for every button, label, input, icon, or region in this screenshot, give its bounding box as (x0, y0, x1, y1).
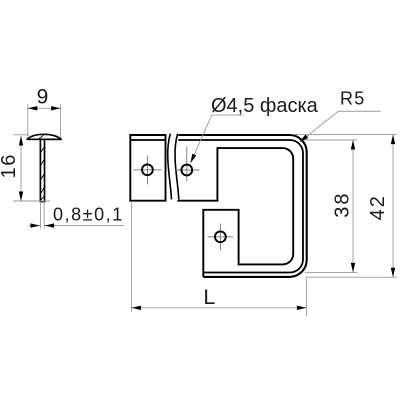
R5 leader (300, 111, 338, 141)
svg-text:R5: R5 (340, 89, 365, 109)
dim 38 arrows (351, 140, 355, 150)
dim 38 line (352, 140, 354, 272)
break line 2 (175, 134, 179, 200)
stem bottom end bar (40, 201, 46, 203)
cap (head) outline (27, 134, 61, 139)
dim L extension lines (131, 203, 133, 313)
outer contour of strip (178, 135, 306, 277)
dim 9 arrows (28, 106, 38, 110)
svg-text:16: 16 (0, 153, 20, 178)
svg-text:42: 42 (367, 194, 389, 220)
break line 1 (168, 134, 172, 200)
dim 42 arrows (391, 135, 395, 145)
stem right edge (44, 139, 46, 201)
hole 2 (181, 165, 192, 176)
dim 42 line (392, 135, 394, 278)
dim L line (132, 307, 307, 309)
left piece: inner top line (130, 139, 165, 141)
dim 38 extension lines (304, 139, 358, 141)
dim L arrows (132, 306, 142, 310)
inner contour (face window) and tab (203, 148, 293, 277)
dim 16 line (20, 136, 22, 201)
leader arrowhead (190, 154, 196, 164)
svg-text:0,8±0,1: 0,8±0,1 (53, 205, 124, 225)
dim 0,8 extension lines (40, 203, 42, 229)
left piece: outer top line (129, 134, 165, 136)
hole 3 center cross (219, 224, 221, 251)
dim 0,8 leader lines (29, 225, 41, 227)
svg-text:38: 38 (332, 191, 354, 217)
R5 arrowhead (300, 134, 309, 142)
svg-text:L: L (203, 285, 215, 309)
left piece: bottom edge (129, 200, 166, 202)
svg-text:9: 9 (37, 86, 49, 109)
hole 1 center cross (146, 156, 148, 185)
inner line of strip (178, 140, 303, 273)
dim 16 arrows (19, 136, 23, 146)
left piece: left edge (129, 134, 131, 201)
face bottom edge (right of break) (177, 200, 218, 202)
face right edge (216, 147, 218, 201)
left piece: right edge (165, 134, 167, 201)
dim 42 extension lines (295, 134, 397, 136)
dim 16 extension lines (13, 134, 30, 136)
hole 3 (215, 231, 226, 242)
cap hatch stroke (39, 135, 44, 139)
hole 2 center cross (186, 146, 188, 181)
svg-text:Ø4,5 фаска: Ø4,5 фаска (211, 95, 319, 117)
hole 1 (142, 164, 153, 175)
leader for hole dia (191, 115, 212, 162)
dim 9 line (28, 107, 61, 109)
dim 0,8 arrows (31, 223, 41, 227)
stem hatch strokes (40, 147, 44, 153)
stem left edge (39, 139, 41, 201)
dim 9 extension lines (27, 104, 29, 138)
